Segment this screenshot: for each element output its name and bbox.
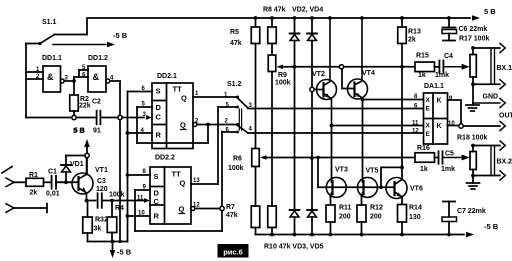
svg-text:R: R [156, 131, 162, 140]
svg-text:1k: 1k [420, 166, 428, 173]
svg-text:11: 11 [412, 121, 419, 127]
svg-text:R1: R1 [29, 172, 38, 179]
svg-text:100k: 100k [109, 192, 125, 199]
svg-text:5 В: 5 В [484, 7, 496, 16]
svg-text:S: S [154, 172, 159, 181]
svg-text:R14: R14 [409, 205, 422, 212]
svg-text:VT3: VT3 [335, 167, 348, 174]
svg-text:130: 130 [409, 214, 421, 221]
svg-text:GND: GND [483, 94, 499, 101]
svg-text:TT: TT [172, 170, 182, 179]
svg-text:VD1: VD1 [70, 161, 84, 168]
svg-text:X: X [426, 123, 431, 130]
svg-text:47k: 47k [230, 40, 242, 47]
svg-text:R9: R9 [278, 72, 287, 79]
svg-text:S: S [156, 87, 161, 96]
svg-text:S1.1: S1.1 [42, 19, 57, 26]
svg-text:1mk: 1mk [441, 166, 455, 173]
svg-text:Q: Q [180, 121, 186, 130]
svg-text:D: D [156, 103, 162, 112]
svg-text:2k: 2k [408, 37, 416, 44]
svg-text:0,01: 0,01 [46, 191, 60, 198]
svg-text:OUT: OUT [499, 113, 512, 120]
svg-text:R12: R12 [370, 205, 383, 212]
svg-text:12: 12 [193, 203, 200, 209]
svg-text:R10 47k VD3, VD5: R10 47k VD3, VD5 [264, 244, 324, 251]
svg-text:S1.2: S1.2 [227, 81, 242, 88]
svg-text:200: 200 [370, 214, 382, 221]
svg-text:E: E [426, 131, 431, 138]
svg-text:X: X [426, 97, 431, 104]
svg-text:13: 13 [193, 178, 200, 184]
svg-text:5 В: 5 В [73, 126, 85, 135]
svg-text:1k: 1k [418, 72, 426, 79]
svg-text:DD1.2: DD1.2 [88, 55, 108, 62]
svg-text:C: C [154, 197, 160, 206]
svg-text:C2: C2 [92, 99, 101, 106]
svg-text:Q: Q [180, 179, 186, 188]
svg-text:C: C [156, 113, 162, 122]
svg-text:R5: R5 [230, 29, 239, 36]
svg-text:BX.2: BX.2 [497, 159, 512, 166]
svg-text:рис.6: рис.6 [223, 248, 243, 257]
svg-text:C7 22mk: C7 22mk [457, 208, 486, 215]
svg-text:3k: 3k [94, 226, 102, 233]
svg-text:47k: 47k [226, 212, 238, 219]
svg-text:2k: 2k [30, 190, 38, 197]
svg-text:R18 100k: R18 100k [457, 135, 487, 142]
svg-text:TT: TT [173, 85, 183, 94]
svg-text:R: R [154, 212, 160, 221]
svg-text:1mk: 1mk [435, 72, 449, 79]
svg-text:C6 22mk: C6 22mk [459, 26, 488, 33]
svg-text:12: 12 [412, 129, 419, 135]
svg-text:91: 91 [93, 128, 101, 135]
svg-text:100k: 100k [228, 165, 244, 172]
svg-text:DD1.1: DD1.1 [42, 55, 62, 62]
svg-text:K: K [437, 123, 442, 130]
svg-text:R15: R15 [416, 53, 429, 60]
svg-text:K: K [437, 98, 442, 105]
svg-text:Q: Q [179, 205, 185, 214]
svg-text:R11: R11 [339, 205, 352, 212]
svg-text:-5 В: -5 В [113, 31, 128, 40]
svg-text:VT4: VT4 [362, 70, 375, 77]
svg-text:10: 10 [138, 211, 145, 217]
svg-text:R8 47k: R8 47k [263, 7, 286, 14]
svg-text:R7: R7 [226, 204, 235, 211]
svg-text:C4: C4 [444, 53, 453, 60]
svg-text:&: & [93, 72, 100, 82]
svg-text:R16: R16 [417, 145, 430, 152]
svg-text:Q: Q [181, 94, 187, 103]
svg-text:DA1.1: DA1.1 [424, 83, 444, 90]
svg-text:VT5: VT5 [366, 168, 379, 175]
svg-text:R17 100k: R17 100k [459, 36, 489, 43]
svg-text:R13: R13 [408, 29, 421, 36]
svg-text:VT2: VT2 [312, 71, 325, 78]
svg-text:&: & [47, 72, 54, 82]
svg-text:VD2, VD4: VD2, VD4 [292, 7, 323, 14]
svg-text:100k: 100k [275, 80, 291, 87]
svg-text:R6: R6 [233, 156, 242, 163]
svg-text:R4: R4 [115, 205, 124, 212]
svg-text:DD2.2: DD2.2 [155, 155, 175, 162]
svg-text:VT1: VT1 [95, 167, 108, 174]
svg-text:DD2.1: DD2.1 [157, 73, 177, 80]
svg-text:BX.1: BX.1 [497, 65, 512, 72]
svg-text:C1: C1 [48, 169, 57, 176]
svg-text:120: 120 [96, 186, 108, 193]
svg-text:VT6: VT6 [410, 186, 423, 193]
svg-text:22k: 22k [79, 103, 91, 110]
svg-text:200: 200 [339, 214, 351, 221]
svg-text:R32: R32 [95, 217, 108, 224]
svg-text:C3: C3 [97, 178, 106, 185]
svg-text:-5 В: -5 В [484, 222, 499, 231]
svg-text:-5 В: -5 В [117, 248, 132, 257]
svg-text:E: E [426, 106, 431, 113]
svg-text:C5: C5 [445, 151, 454, 158]
